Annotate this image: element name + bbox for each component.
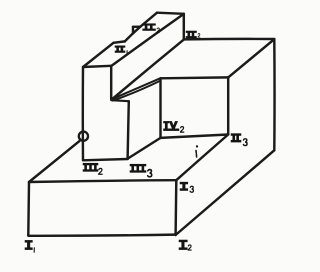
wall right face bottom long receding edge <box>111 40 184 100</box>
notch face right vertical edge <box>227 77 229 134</box>
label II2 top <box>143 24 160 33</box>
right block top front edge <box>184 38 274 41</box>
step flag left vertical edge <box>132 27 134 34</box>
notch face left vertical edge <box>159 78 161 138</box>
right silhouette vertical edge <box>273 39 276 150</box>
wall top back width edge <box>157 13 184 14</box>
right block top-right receding edge <box>228 39 274 77</box>
stray mark dot <box>196 145 198 147</box>
step flag top edge <box>133 25 140 28</box>
label III2 <box>83 163 102 174</box>
step ledge horizontal edge <box>114 41 125 42</box>
middle step top front receding edge <box>113 81 161 101</box>
middle step front vertical edge <box>128 101 129 158</box>
middle step bottom receding edge <box>128 138 161 159</box>
notch face top edge <box>161 76 229 79</box>
base front top edge <box>29 180 176 182</box>
label II1 <box>115 46 127 55</box>
label I2 <box>179 240 191 250</box>
wall top-left receding edge lower <box>83 43 114 67</box>
notch face bottom edge <box>161 135 229 138</box>
middle step top back receding edge <box>111 78 160 99</box>
label II3 <box>231 134 247 146</box>
step flag hypotenuse <box>133 27 140 34</box>
label I3 <box>180 182 193 192</box>
wall bottom horizontal edge <box>83 159 128 160</box>
base left vertical edge <box>27 182 30 235</box>
stray mark dash <box>195 151 197 154</box>
upper top receding silhouette <box>140 13 157 27</box>
base top receding edge I3-II3 <box>176 135 228 181</box>
step riser edge <box>125 33 133 41</box>
label IV2 <box>164 121 184 132</box>
middle step top horizontal edge <box>111 100 129 101</box>
label I1 <box>25 240 34 252</box>
base front bottom edge <box>28 235 175 236</box>
point marker circle <box>79 132 88 141</box>
label II2 right <box>186 31 200 38</box>
base bottom-right receding edge <box>176 150 275 235</box>
base top-left receding edge <box>29 141 80 182</box>
wall front top edge <box>83 66 111 67</box>
label III3 <box>130 164 152 177</box>
wall top-right long receding edge <box>111 14 184 66</box>
wall inner right vertical edge <box>110 66 112 100</box>
base front-right vertical edge <box>174 181 177 236</box>
wall left vertical edge <box>82 67 85 160</box>
wall back-right vertical edge <box>183 14 185 40</box>
